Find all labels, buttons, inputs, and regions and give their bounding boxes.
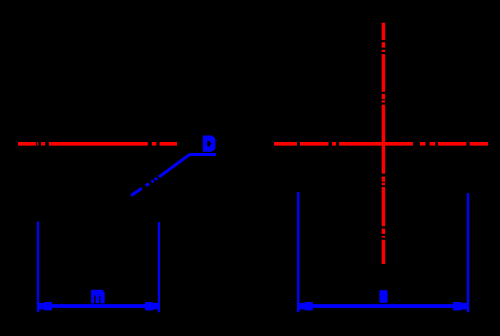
leader line (D) solid part with underline <box>159 155 216 178</box>
arrowhead s right <box>453 302 467 310</box>
extension line right (s) <box>467 193 469 312</box>
arrowhead m left <box>39 302 52 310</box>
label s <box>379 290 387 303</box>
dimension line m <box>39 304 158 308</box>
extension line left (s) <box>297 192 299 312</box>
centerline (top view horizontal axis) <box>274 142 488 146</box>
dimension line s <box>299 304 466 308</box>
arrowhead s left <box>299 302 312 310</box>
label m <box>91 290 105 304</box>
centerline (top view vertical axis) <box>382 23 386 264</box>
label D <box>203 136 216 152</box>
arrowhead m right <box>145 302 158 310</box>
extension line right (m) <box>158 222 160 312</box>
extension line left (m) <box>37 222 39 313</box>
centerline (side view axis) <box>18 142 177 146</box>
leader line (D) dash-dot tail <box>131 178 157 195</box>
